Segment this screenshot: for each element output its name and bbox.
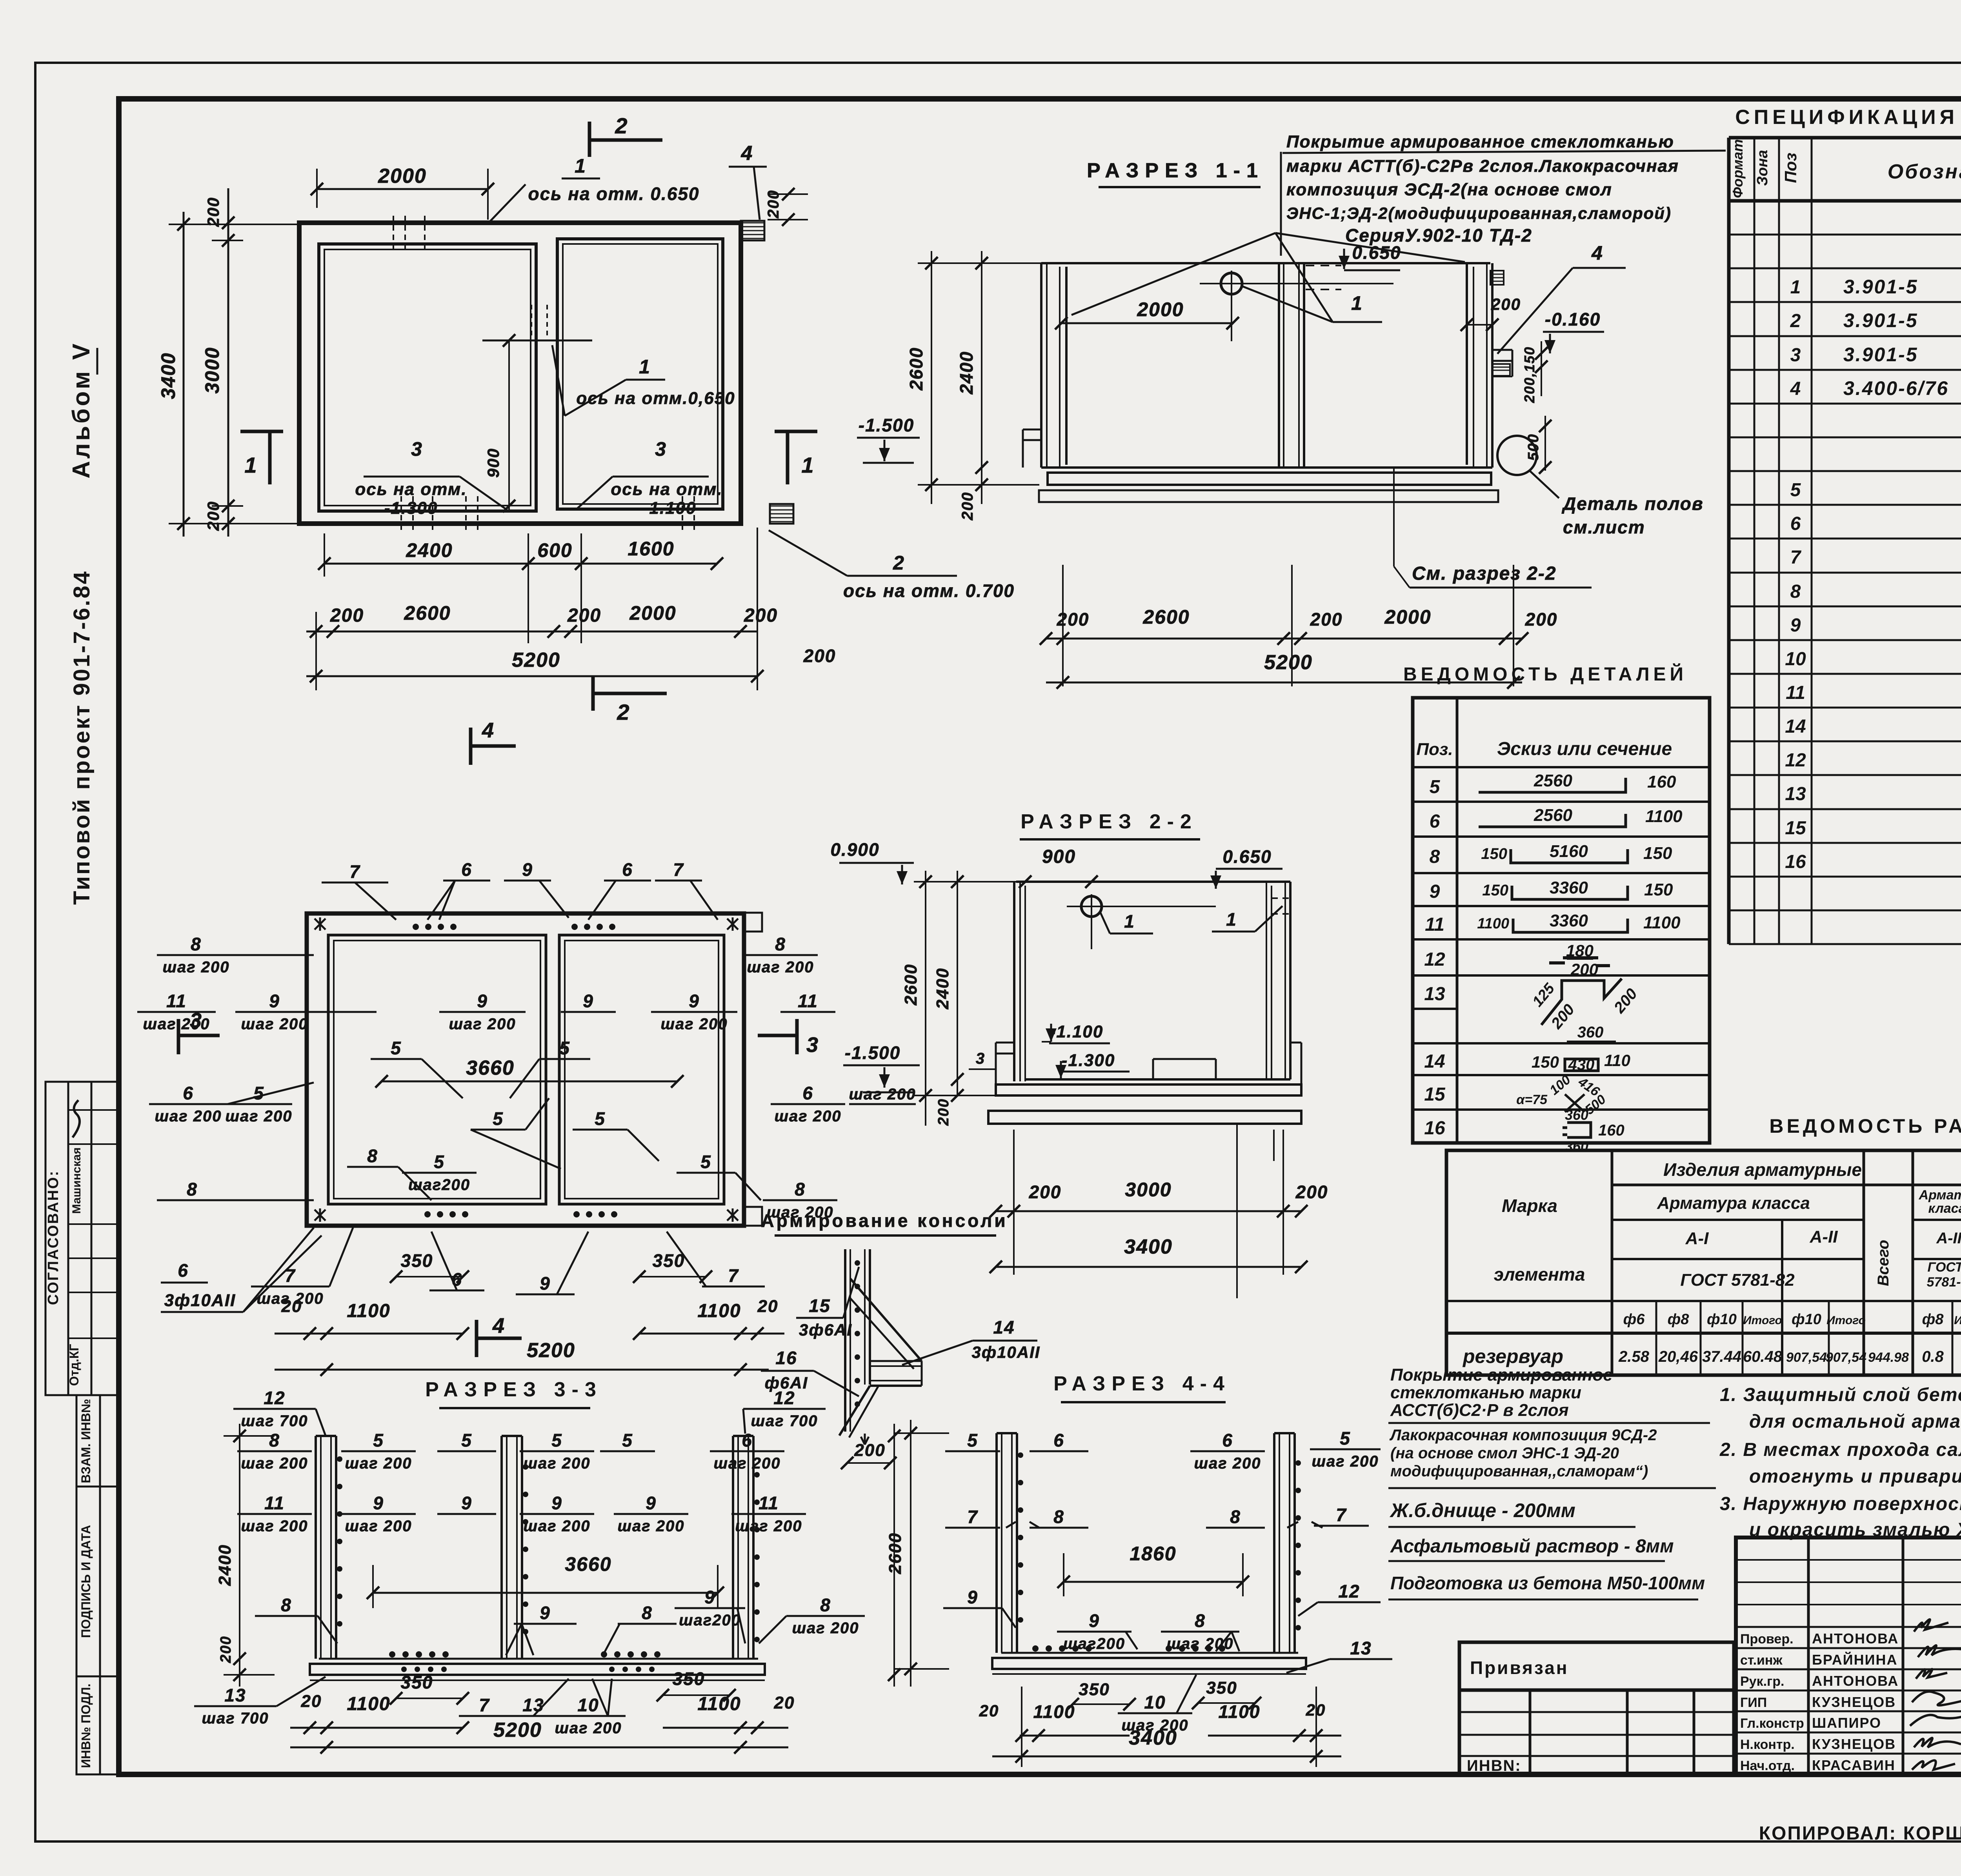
svg-text:2400: 2400	[956, 351, 977, 395]
svg-text:180: 180	[1566, 941, 1594, 960]
svg-text:шаг 200: шаг 200	[660, 1015, 728, 1033]
svg-text:7: 7	[1790, 547, 1802, 568]
section 2-2 3400 dim	[990, 1236, 1308, 1273]
svg-text:5: 5	[622, 1430, 633, 1450]
svg-text:5: 5	[559, 1038, 570, 1058]
section mark 2 top	[589, 113, 662, 157]
svg-text:3.901-5: 3.901-5	[1843, 276, 1918, 298]
svg-text:5: 5	[373, 1430, 384, 1450]
svg-text:Поз.: Поз.	[1416, 740, 1453, 759]
level 0.900	[830, 839, 914, 884]
svg-text:200: 200	[567, 605, 601, 626]
svg-text:2000: 2000	[629, 602, 676, 624]
svg-text:150: 150	[1481, 845, 1507, 862]
svg-text:907,54: 907,54	[1826, 1350, 1866, 1365]
section 1-1 5200 dim	[1046, 651, 1522, 689]
svg-text:360: 360	[1577, 1024, 1604, 1041]
svg-text:3: 3	[190, 1009, 202, 1032]
armature bottom callouts	[251, 1228, 765, 1307]
svg-text:шаг 200: шаг 200	[523, 1518, 590, 1535]
svg-text:160: 160	[1647, 772, 1676, 792]
svg-text:12: 12	[1785, 750, 1806, 771]
svg-text:13: 13	[1785, 784, 1806, 804]
wall break dashes bottom	[400, 496, 402, 533]
svg-text:Н.контр.: Н.контр.	[1740, 1737, 1795, 1752]
svg-text:11: 11	[1425, 914, 1444, 935]
svg-text:КОПИРОВАЛ: КОРШУНОВА: КОПИРОВАЛ: КОРШУНОВА	[1759, 1823, 1961, 1844]
armature inside callouts	[347, 991, 835, 1200]
section 4-4 callout row1	[945, 1428, 1381, 1472]
section 1-1 label 1	[1242, 286, 1382, 322]
svg-text:200: 200	[935, 1098, 952, 1126]
section mark 3 left	[178, 1009, 220, 1054]
svg-text:3.901-5: 3.901-5	[1843, 309, 1918, 331]
svg-text:20: 20	[301, 1692, 322, 1711]
svg-text:см.лист: см.лист	[1563, 517, 1645, 537]
section 3-3 walls	[310, 1436, 765, 1680]
svg-text:ф6: ф6	[1623, 1311, 1645, 1328]
svg-text:1100: 1100	[1645, 807, 1683, 826]
svg-text:9: 9	[540, 1273, 551, 1294]
svg-text:- 1.100: - 1.100	[637, 499, 697, 518]
svg-text:ось на отм. 0.650: ось на отм. 0.650	[528, 184, 699, 204]
svg-text:8: 8	[1430, 846, 1440, 867]
svg-text:11: 11	[166, 991, 187, 1011]
svg-text:16: 16	[1424, 1118, 1445, 1139]
svg-text:8: 8	[281, 1595, 292, 1615]
svg-text:150: 150	[1532, 1053, 1559, 1071]
svg-text:Рук.гр.: Рук.гр.	[1740, 1674, 1784, 1689]
armature 5200 dim	[275, 1339, 769, 1376]
svg-text:2000: 2000	[1137, 298, 1184, 320]
svg-text:ПОДПИСЬ И ДАТА: ПОДПИСЬ И ДАТА	[79, 1525, 93, 1638]
svg-text:9: 9	[583, 991, 594, 1011]
section 4-4 callout row2	[945, 1504, 1369, 1528]
section 1-1 floor detail circle	[1497, 436, 1704, 537]
embedded part hatch top-right	[741, 221, 764, 240]
svg-text:8: 8	[187, 1179, 198, 1199]
svg-text:ф8: ф8	[1922, 1311, 1944, 1328]
svg-text:9: 9	[1790, 615, 1801, 636]
svg-text:9: 9	[1430, 881, 1440, 902]
section 3-3 callout row1	[237, 1430, 897, 1472]
svg-text:60.48: 60.48	[1743, 1348, 1783, 1365]
svg-text:-1.100: -1.100	[1050, 1022, 1104, 1041]
svg-text:ВЗАМ. ИНВ№: ВЗАМ. ИНВ№	[79, 1399, 93, 1483]
svg-text:15: 15	[1785, 818, 1806, 839]
svg-text:12: 12	[264, 1388, 285, 1408]
svg-text:7: 7	[1336, 1505, 1347, 1525]
svg-text:2: 2	[615, 113, 628, 138]
embedded part hatch bottom-right	[770, 504, 793, 524]
svg-text:шаг200: шаг200	[679, 1612, 741, 1629]
svg-text:8: 8	[642, 1603, 653, 1623]
svg-text:Поз: Поз	[1781, 153, 1800, 183]
svg-text:для остальной арматуры - 20мм.: для остальной арматуры - 20мм.	[1749, 1411, 1961, 1432]
svg-text:4: 4	[482, 719, 495, 742]
svg-text:350: 350	[401, 1250, 433, 1271]
svg-text:5200: 5200	[493, 1719, 542, 1741]
callout 1 axis 0.650 top	[488, 155, 700, 224]
svg-text:2600: 2600	[901, 964, 920, 1006]
svg-text:37.44: 37.44	[1702, 1348, 1741, 1365]
svg-text:2: 2	[893, 552, 905, 574]
svg-text:шаг 200: шаг 200	[735, 1518, 802, 1535]
svg-text:12: 12	[1338, 1581, 1360, 1601]
section 1-1 500 dim right	[1525, 416, 1552, 474]
svg-text:3: 3	[411, 438, 423, 460]
svg-text:2600: 2600	[906, 347, 926, 391]
svg-text:7: 7	[673, 859, 684, 880]
svg-text:350: 350	[653, 1250, 685, 1271]
rebar dots plan	[413, 924, 617, 1217]
svg-text:5: 5	[967, 1430, 978, 1450]
svg-text:3400: 3400	[1129, 1727, 1177, 1749]
svg-text:3360: 3360	[1550, 911, 1588, 930]
svg-text:ИНВ№ ПОДЛ.: ИНВ№ ПОДЛ.	[79, 1683, 93, 1768]
section 4-4 walls	[992, 1433, 1306, 1674]
svg-text:Типовой проект 901-7-6.84: Типовой проект 901-7-6.84	[69, 570, 95, 905]
svg-text:А-I: А-I	[1685, 1229, 1709, 1248]
svg-text:5: 5	[461, 1430, 472, 1450]
section 1-1 right console	[1492, 349, 1512, 351]
svg-text:5200: 5200	[512, 649, 560, 671]
svg-text:13: 13	[1424, 984, 1445, 1004]
steel consumption table grid	[1446, 1150, 1961, 1375]
armature corner stars	[315, 917, 738, 1222]
svg-text:отогнуть и приварить к корпусу: отогнуть и приварить к корпусу сольника.	[1749, 1466, 1961, 1487]
plan left chamber walls	[319, 244, 536, 511]
svg-text:16: 16	[1785, 852, 1806, 872]
svg-text:15: 15	[809, 1296, 830, 1316]
svg-text:3400: 3400	[157, 352, 179, 399]
svg-text:А-II: А-II	[1810, 1227, 1838, 1246]
svg-text:3000: 3000	[201, 347, 223, 393]
parts list grid	[1413, 698, 1710, 1143]
svg-text:360: 360	[1565, 1107, 1588, 1123]
svg-text:КУЗНЕЦОВ: КУЗНЕЦОВ	[1812, 1736, 1896, 1752]
svg-text:ось на отм.0,650: ось на отм.0,650	[576, 389, 735, 408]
section 1-1 bottom slab	[1041, 466, 1492, 469]
armature top callouts 7 6 9 6 7	[322, 859, 718, 920]
svg-text:шаг 700: шаг 700	[202, 1710, 269, 1727]
svg-text:6: 6	[183, 1083, 194, 1103]
section mark 1 left	[240, 431, 283, 484]
svg-text:5: 5	[595, 1108, 606, 1129]
svg-text:3000: 3000	[1125, 1179, 1172, 1201]
svg-text:1: 1	[1351, 292, 1363, 314]
svg-text:200: 200	[218, 1636, 234, 1663]
svg-text:4: 4	[1591, 242, 1603, 264]
svg-text:3: 3	[655, 438, 667, 460]
svg-text:КУЗНЕЦОВ: КУЗНЕЦОВ	[1812, 1694, 1896, 1710]
svg-text:9: 9	[646, 1493, 657, 1513]
svg-text:шаг 200: шаг 200	[617, 1518, 684, 1535]
svg-text:шаг 200: шаг 200	[747, 959, 814, 976]
section 4-4 rebar dots	[1018, 1452, 1301, 1652]
section mark 3 right	[758, 1019, 819, 1057]
svg-text:Асфальтовый раствор - 8мм: Асфальтовый раствор - 8мм	[1390, 1536, 1674, 1557]
svg-text:ст.инж: ст.инж	[1740, 1653, 1783, 1668]
svg-text:9: 9	[689, 991, 700, 1011]
svg-text:3400: 3400	[1124, 1236, 1173, 1258]
svg-text:Зона: Зона	[1754, 150, 1771, 186]
svg-text:10: 10	[577, 1695, 599, 1715]
svg-text:7: 7	[728, 1265, 739, 1286]
svg-text:9: 9	[269, 991, 280, 1011]
callout 4 top right	[729, 0, 808, 226]
svg-text:200: 200	[1310, 609, 1343, 630]
svg-text:Привязан: Привязан	[1470, 1658, 1569, 1678]
svg-text:Ж.б.днище - 200мм: Ж.б.днище - 200мм	[1389, 1499, 1575, 1521]
console labels 16	[761, 1348, 859, 1396]
section 2-2 tank	[988, 882, 1301, 1298]
svg-text:СОГЛАСОВАНО:: СОГЛАСОВАНО:	[45, 1170, 62, 1305]
svg-text:20: 20	[774, 1693, 795, 1712]
svg-text:14: 14	[1785, 716, 1806, 737]
section 1-1 embedded hatch right	[1490, 271, 1510, 376]
callout 1 axis 0,650 mid	[552, 345, 735, 416]
svg-text:Арматура: Арматура	[1919, 1188, 1961, 1203]
svg-text:1: 1	[1124, 911, 1135, 932]
svg-text:1100: 1100	[347, 1694, 390, 1714]
svg-text:ВЕДОМОСТЬ ДЕТАЛЕЙ: ВЕДОМОСТЬ ДЕТАЛЕЙ	[1403, 663, 1687, 685]
svg-text:1100: 1100	[1477, 915, 1509, 932]
svg-text:430: 430	[1568, 1056, 1595, 1074]
section 1-1 left vertical dims	[906, 251, 1043, 520]
svg-text:8: 8	[191, 934, 202, 954]
svg-text:α=75: α=75	[1516, 1092, 1548, 1107]
svg-text:1100: 1100	[1643, 913, 1681, 932]
svg-text:2600: 2600	[886, 1532, 905, 1574]
svg-text:150: 150	[1643, 844, 1672, 863]
svg-text:Нач.отд.: Нач.отд.	[1740, 1758, 1795, 1773]
svg-text:шаг 700: шаг 700	[751, 1412, 818, 1430]
stamp block soglasovano	[45, 1082, 119, 1395]
section 2-2 levels -1.100 -1.300	[969, 1022, 1130, 1078]
svg-text:Итого: Итого	[1954, 1314, 1961, 1327]
title block	[1736, 1538, 1961, 1774]
svg-text:9: 9	[522, 859, 533, 880]
svg-text:3: 3	[1790, 345, 1801, 366]
svg-text:1100: 1100	[1033, 1701, 1075, 1722]
svg-text:БРАЙНИНА: БРАЙНИНА	[1812, 1651, 1897, 1668]
svg-text:200: 200	[1295, 1182, 1328, 1202]
svg-text:2000: 2000	[378, 165, 427, 187]
svg-text:20: 20	[757, 1297, 779, 1316]
section 4-4 left dim 2600	[886, 1420, 949, 1687]
section 1-1 -0.160 level	[1543, 309, 1604, 353]
armature plan walls	[307, 913, 762, 1226]
svg-text:модифицированная,,сламорам“): модифицированная,,сламорам“)	[1390, 1463, 1648, 1480]
svg-text:200: 200	[330, 605, 364, 626]
svg-text:200: 200	[1029, 1182, 1062, 1202]
svg-text:марки АСТТ(б)-С2Рв 2слоя.Лакок: марки АСТТ(б)-С2Рв 2слоя.Лакокрасочная	[1286, 156, 1679, 176]
svg-text:11: 11	[798, 991, 818, 1011]
svg-text:ось на отм.: ось на отм.	[355, 480, 467, 499]
svg-text:шаг 200: шаг 200	[713, 1455, 780, 1472]
svg-text:ось на отм. 0.700: ось на отм. 0.700	[843, 580, 1015, 601]
svg-text:ИНВN:: ИНВN:	[1467, 1757, 1521, 1774]
svg-text:Обозначение: Обозначение	[1888, 160, 1961, 183]
svg-text:0.900: 0.900	[830, 839, 879, 860]
svg-text:шаг 200: шаг 200	[241, 1455, 308, 1472]
callout 3 axis -1.100	[577, 438, 723, 518]
svg-text:шаг200: шаг200	[408, 1176, 470, 1194]
svg-text:стеклотканью марки: стеклотканью марки	[1390, 1383, 1581, 1402]
svg-text:Машинская: Машинская	[70, 1147, 83, 1214]
section 1-1 callout 4	[1497, 242, 1626, 354]
section 4-4 3400 dim	[992, 1727, 1341, 1763]
svg-text:-1.500: -1.500	[845, 1043, 900, 1063]
svg-text:14: 14	[993, 1317, 1015, 1337]
svg-text:шаг 200: шаг 200	[162, 959, 229, 976]
svg-text:Альбом V: Альбом V	[68, 341, 95, 479]
svg-text:АССТ(б)С2·Р в 2слоя: АССТ(б)С2·Р в 2слоя	[1390, 1401, 1569, 1420]
section 2-2 0.650 level	[1210, 846, 1282, 889]
svg-text:8: 8	[367, 1146, 378, 1166]
svg-text:шаг 700: шаг 700	[241, 1412, 308, 1430]
armature right callouts	[743, 934, 916, 1221]
svg-text:Изделия арматурные: Изделия арматурные	[1663, 1159, 1862, 1180]
section 4-4 inner callouts	[1057, 1610, 1239, 1652]
svg-text:5781-82: 5781-82	[1927, 1275, 1961, 1290]
section 1-1 0.650 level	[1339, 242, 1401, 270]
svg-text:ГОСТ 5781-82: ГОСТ 5781-82	[1680, 1270, 1795, 1290]
svg-text:11: 11	[759, 1493, 779, 1513]
armature plan 3660 dim	[375, 1057, 684, 1088]
svg-text:шаг 200: шаг 200	[523, 1455, 590, 1472]
svg-text:5200: 5200	[527, 1339, 575, 1362]
svg-text:200: 200	[744, 605, 778, 626]
plan bottom dims row1	[318, 533, 723, 643]
svg-text:6: 6	[1790, 513, 1801, 534]
svg-text:Всего: Всего	[1875, 1240, 1892, 1286]
svg-text:2: 2	[617, 700, 630, 724]
svg-text:7: 7	[479, 1695, 490, 1715]
svg-text:13: 13	[1350, 1638, 1372, 1658]
svg-text:200: 200	[1525, 609, 1558, 630]
svg-text:Деталь полов: Деталь полов	[1561, 493, 1704, 514]
svg-text:8: 8	[775, 934, 786, 954]
section 1-1 middle wall dashes	[1306, 266, 1341, 289]
svg-text:шаг 200: шаг 200	[1312, 1453, 1379, 1470]
svg-text:13: 13	[224, 1685, 246, 1705]
svg-text:2: 2	[1790, 311, 1801, 331]
svg-text:3: 3	[806, 1033, 819, 1057]
level -1.500 left	[857, 415, 920, 463]
svg-text:5: 5	[391, 1038, 402, 1058]
level -1.500 (2-2)	[843, 1043, 920, 1092]
svg-text:8: 8	[269, 1430, 280, 1450]
svg-text:ф8: ф8	[1668, 1311, 1690, 1328]
svg-text:5: 5	[1340, 1428, 1351, 1448]
section 3-3 rebar dots	[337, 1456, 760, 1672]
section 1-1 title	[1087, 159, 1264, 187]
svg-text:1100: 1100	[697, 1694, 741, 1714]
svg-text:РАЗРЕЗ 2-2: РАЗРЕЗ 2-2	[1021, 810, 1198, 833]
svg-text:РАЗРЕЗ 3-3: РАЗРЕЗ 3-3	[425, 1378, 602, 1401]
svg-text:5: 5	[493, 1108, 504, 1129]
hatch step detail right top dashed	[1272, 897, 1290, 899]
svg-text:900: 900	[484, 448, 502, 478]
svg-text:Армирование консоли: Армирование консоли	[761, 1210, 1008, 1231]
svg-text:2560: 2560	[1534, 806, 1572, 825]
svg-text:ф10: ф10	[1792, 1311, 1821, 1328]
svg-text:3ф10АII: 3ф10АII	[164, 1291, 236, 1310]
svg-text:-0.160: -0.160	[1545, 309, 1601, 329]
svg-text:10: 10	[1785, 649, 1806, 670]
svg-text:20: 20	[979, 1701, 999, 1720]
svg-text:6: 6	[802, 1083, 813, 1103]
section 3-3 right dim 2600	[888, 1424, 900, 1687]
svg-text:1. Защитный слой бетона для ни: 1. Защитный слой бетона для нижней арма:…	[1720, 1385, 1961, 1405]
svg-text:шаг 200: шаг 200	[345, 1455, 412, 1472]
svg-text:10: 10	[1144, 1692, 1166, 1712]
svg-text:8: 8	[795, 1179, 806, 1199]
svg-text:РАЗРЕЗ 4-4: РАЗРЕЗ 4-4	[1053, 1372, 1231, 1395]
svg-text:6: 6	[742, 1430, 753, 1450]
svg-text:Гл.констр: Гл.констр	[1740, 1716, 1804, 1731]
svg-text:11: 11	[1786, 682, 1805, 703]
section 3-3 callout row2	[237, 1493, 806, 1535]
section 1-1 leader lines from note	[1071, 233, 1465, 322]
section 1-1 see section 2-2 note	[1394, 468, 1592, 588]
section 2-2 left dims	[901, 871, 1020, 1126]
svg-text:160: 160	[1598, 1122, 1624, 1139]
svg-text:200: 200	[204, 197, 222, 227]
svg-text:200,150: 200,150	[1521, 346, 1537, 403]
svg-text:ф10: ф10	[1707, 1311, 1737, 1328]
svg-text:шаг 200: шаг 200	[1194, 1455, 1261, 1472]
section 1-1 left console	[1023, 429, 1041, 431]
svg-text:шаг 200: шаг 200	[449, 1015, 516, 1033]
svg-text:350: 350	[673, 1669, 705, 1689]
svg-text:2400: 2400	[406, 539, 453, 561]
console labels 14	[902, 1317, 1040, 1365]
section 4-4 bottom small dims	[979, 1675, 1341, 1767]
svg-text:3360: 3360	[1550, 878, 1588, 897]
armature bottom leaders 3f10A	[161, 1228, 322, 1312]
svg-text:350: 350	[401, 1672, 433, 1692]
svg-text:9: 9	[477, 991, 488, 1011]
svg-text:9: 9	[373, 1493, 384, 1513]
section 2-2 900 dim	[1019, 846, 1098, 888]
svg-text:13: 13	[522, 1695, 544, 1715]
svg-text:Эскиз или сечение: Эскиз или сечение	[1497, 739, 1672, 759]
svg-text:шаг 200: шаг 200	[774, 1108, 841, 1125]
svg-text:шаг 200: шаг 200	[241, 1015, 308, 1033]
section 3-3 slab	[319, 1658, 758, 1660]
section 1-1 gland circle	[1200, 271, 1393, 341]
svg-text:1: 1	[1226, 909, 1237, 930]
svg-text:А-III: А-III	[1936, 1230, 1961, 1247]
svg-text:-1.300: -1.300	[384, 499, 438, 518]
plan bottom dims row3 5200	[306, 528, 836, 690]
svg-text:9: 9	[1089, 1610, 1100, 1631]
svg-text:Итого: Итого	[1743, 1314, 1782, 1327]
inner step box	[1153, 1058, 1216, 1060]
section 3-3 lower labels	[255, 1587, 865, 1655]
section 1-1 200 150 vertical dims right	[1521, 341, 1548, 403]
svg-text:шаг 200: шаг 200	[792, 1619, 859, 1637]
svg-text:4: 4	[741, 142, 753, 165]
svg-text:9: 9	[551, 1493, 562, 1513]
svg-text:2600: 2600	[1142, 606, 1190, 628]
svg-text:150: 150	[1482, 882, 1508, 899]
svg-text:КРАСАВИН: КРАСАВИН	[1812, 1757, 1896, 1773]
section 4-4 1860 dim	[1057, 1543, 1249, 1596]
